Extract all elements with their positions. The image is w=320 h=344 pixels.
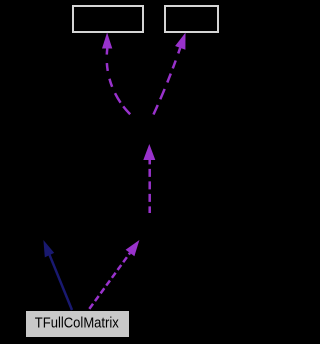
usage edge D4 (dashed curve to top-right box) [153,48,180,116]
node TFullColMatrix [26,311,129,337]
node box top-right (empty, light gray border) [165,6,218,32]
svg-text:TFullColMatrix: TFullColMatrix [35,315,120,331]
usage edge D3 (dashed curve to top-left box) [107,49,132,117]
inheritance edge (solid midnightblue) [50,255,73,310]
usage edge D2 (dashed vertical) [148,160,151,213]
node box top-left (empty, light gray border) [73,6,143,32]
usage edge D1 (dashed darkorchid, from TFullColMatrix up-right) [89,253,131,310]
